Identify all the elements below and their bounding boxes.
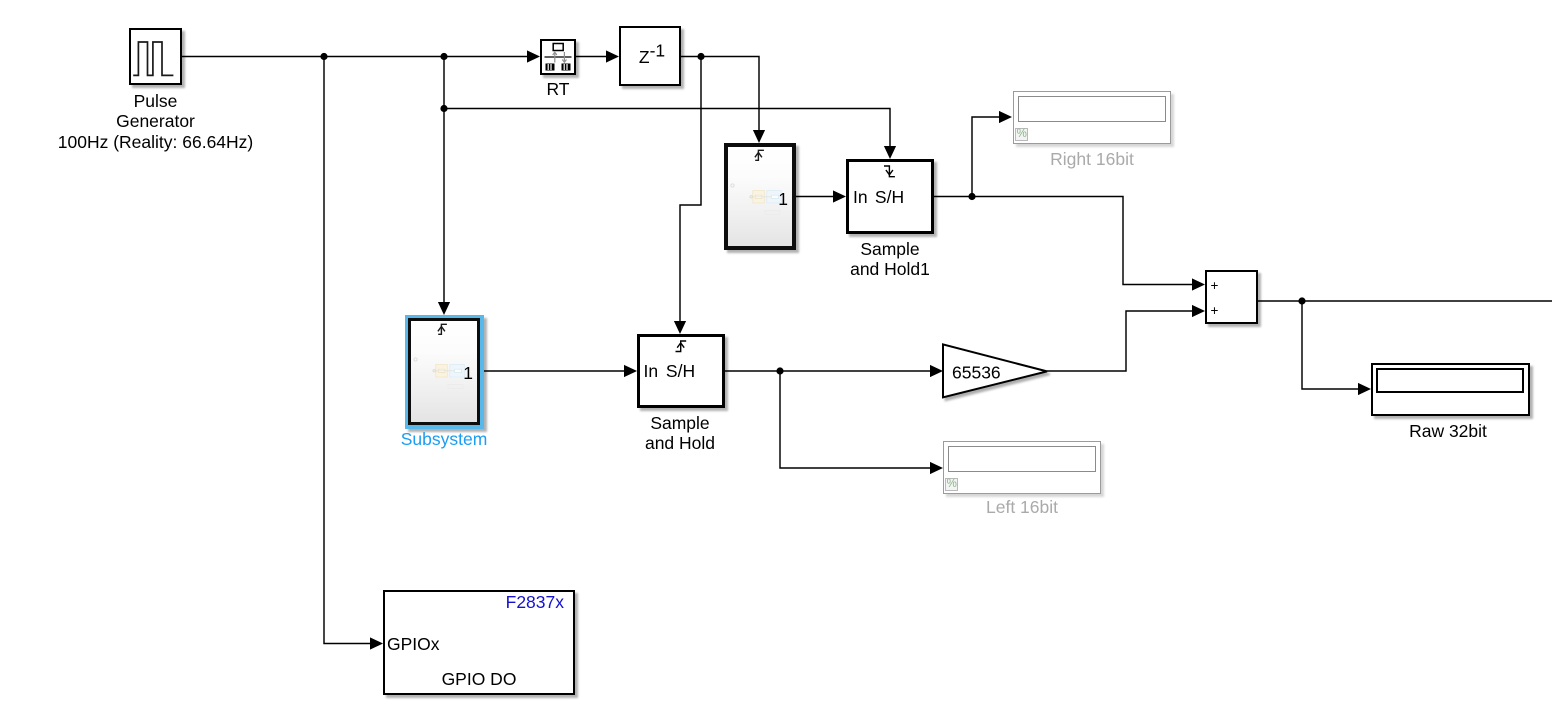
svg-text:65536: 65536 <box>952 362 1001 382</box>
